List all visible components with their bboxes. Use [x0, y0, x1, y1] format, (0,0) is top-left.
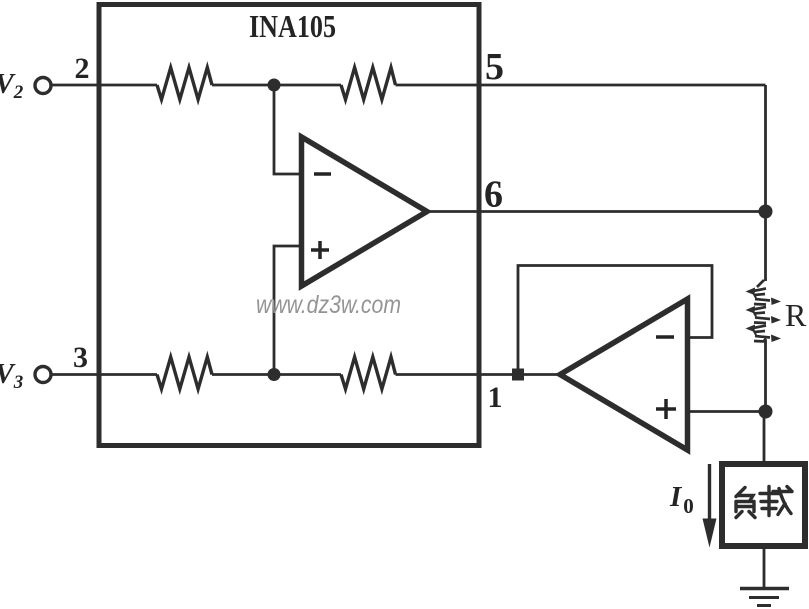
terminal V2 [35, 78, 51, 94]
ground [740, 589, 789, 606]
resistor (V2 input, left) [157, 68, 212, 100]
svg-text:6: 6 [484, 174, 503, 216]
wire between V2-line resistors [212, 84, 341, 87]
wire V3 terminal to resistor [51, 373, 157, 376]
wire V2 terminal to resistor [51, 84, 157, 87]
wire A2 non-inverting input to right bus node [688, 410, 766, 413]
IC U1 INA105 box outline [99, 5, 479, 446]
wire node down to load box [763, 412, 766, 462]
label INA105 [249, 8, 336, 44]
feedback wire A2 output to inverting input [518, 266, 712, 375]
op-amp A2 plus sign [656, 399, 676, 419]
label V2 [0, 69, 24, 103]
svg-text:2: 2 [75, 52, 90, 85]
pin label 1 [488, 381, 503, 414]
wire between V3-line resistors [212, 373, 341, 376]
op-amp A1 minus sign [314, 172, 331, 176]
wire non-inverting input of A1 (from V3 junction) [274, 246, 302, 375]
wire A1 output to node at right bus (pin 6) [427, 210, 766, 213]
junction node on V3 line [268, 368, 281, 381]
wire pin 5 to right bus [396, 84, 766, 87]
junction node pin6 / right bus [759, 205, 773, 219]
wire pin 1 to op-amp A2 output [396, 373, 561, 376]
watermark www.dz3w.com [256, 291, 401, 319]
label V3 [0, 359, 23, 393]
terminal V3 [35, 367, 51, 383]
wire node6 down to resistor R [764, 212, 767, 282]
label R [785, 297, 807, 333]
resistor (V3 input, left) [157, 357, 212, 389]
wire inverting input of A1 (from V2 junction) [274, 85, 302, 174]
wire R bottom to node at + input [764, 340, 767, 412]
svg-text:www.dz3w.com: www.dz3w.com [256, 291, 401, 319]
wire right bus vertical (pin5 down to node 6) [764, 85, 767, 212]
op-amp A1 [302, 137, 428, 286]
pin label 3 [73, 341, 88, 374]
pin label 6 [484, 174, 503, 216]
junction node on V2 line [268, 79, 281, 92]
pin label 5 [485, 46, 504, 88]
label load (Chinese 负载) drawn strokes [736, 487, 792, 518]
svg-text:3: 3 [73, 341, 88, 374]
svg-text:5: 5 [485, 46, 504, 88]
pin label 2 [75, 52, 90, 85]
wire load box to ground [763, 546, 766, 587]
op-amp A2 (pointing left) [560, 299, 688, 450]
current arrow I0 [703, 464, 717, 548]
svg-text:R: R [785, 297, 807, 333]
op-amp A2 minus sign [656, 335, 674, 339]
junction node (square) on pin1 wire [512, 369, 524, 381]
label I0 [669, 481, 694, 518]
op-amp A1 plus sign [311, 241, 329, 259]
resistor (V2 line, right / feedback to pin5) [341, 68, 396, 100]
svg-text:INA105: INA105 [249, 8, 336, 44]
svg-text:1: 1 [488, 381, 503, 414]
resistor (V3 line, right / to pin1) [341, 357, 396, 389]
load box outline [722, 464, 805, 546]
junction node at + input / load [759, 405, 773, 419]
resistor R (vertical, hand-drawn arrow strokes) [746, 280, 782, 342]
